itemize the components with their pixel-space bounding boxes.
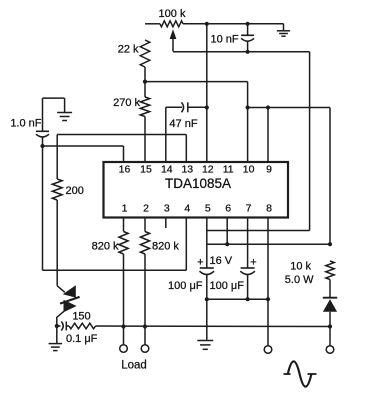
- svg-text:6: 6: [225, 203, 231, 215]
- svg-text:100 μF: 100 μF: [210, 280, 245, 292]
- svg-text:15: 15: [140, 164, 152, 176]
- svg-text:100 k: 100 k: [159, 8, 186, 20]
- svg-text:11: 11: [223, 164, 234, 176]
- svg-text:1.0 nF: 1.0 nF: [10, 118, 41, 130]
- svg-text:100 μF: 100 μF: [168, 280, 203, 292]
- svg-text:820 k: 820 k: [152, 241, 179, 253]
- svg-text:10 nF: 10 nF: [211, 34, 239, 46]
- svg-text:TDA1085A: TDA1085A: [165, 176, 231, 191]
- svg-text:5.0 W: 5.0 W: [285, 274, 314, 286]
- svg-text:13: 13: [181, 164, 193, 176]
- svg-text:9: 9: [266, 164, 272, 176]
- svg-text:3: 3: [164, 203, 170, 215]
- svg-text:12: 12: [202, 164, 214, 176]
- svg-text:1: 1: [122, 203, 128, 215]
- svg-text:10 k: 10 k: [290, 261, 311, 273]
- svg-text:+: +: [250, 257, 256, 269]
- svg-text:5: 5: [205, 203, 211, 215]
- svg-text:22 k: 22 k: [118, 44, 139, 56]
- svg-text:10: 10: [243, 164, 255, 176]
- svg-text:270 k: 270 k: [113, 97, 140, 109]
- svg-text:+: +: [197, 257, 203, 269]
- svg-text:16: 16: [119, 164, 131, 176]
- svg-text:8: 8: [266, 203, 272, 215]
- svg-text:2: 2: [143, 203, 149, 215]
- svg-text:Load: Load: [121, 360, 147, 372]
- svg-text:4: 4: [184, 203, 190, 215]
- svg-text:0.1 μF: 0.1 μF: [66, 333, 98, 345]
- svg-text:16 V: 16 V: [210, 255, 233, 267]
- svg-text:820 k: 820 k: [92, 241, 119, 253]
- svg-text:7: 7: [246, 203, 252, 215]
- svg-text:200: 200: [66, 185, 84, 197]
- svg-text:47 nF: 47 nF: [169, 118, 197, 130]
- svg-text:150: 150: [72, 311, 90, 323]
- svg-text:14: 14: [161, 164, 173, 176]
